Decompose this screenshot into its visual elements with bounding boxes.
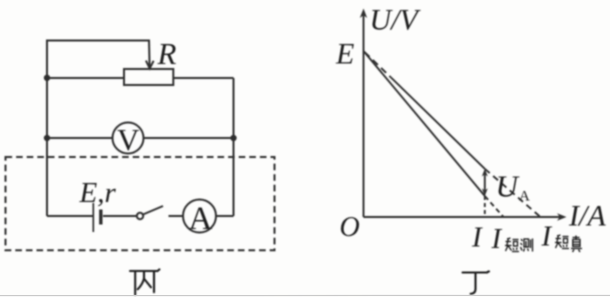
svg-text:E: E <box>335 38 354 71</box>
svg-text:U/V: U/V <box>370 4 422 37</box>
svg-text:A: A <box>519 189 530 205</box>
svg-text:R: R <box>157 36 177 71</box>
svg-text:I: I <box>491 223 503 255</box>
svg-text:I: I <box>471 222 483 254</box>
svg-text:A: A <box>189 201 213 237</box>
svg-text:O: O <box>340 212 360 243</box>
svg-text:V: V <box>117 122 140 157</box>
svg-text:I: I <box>541 221 553 253</box>
svg-text:I/A: I/A <box>568 200 606 233</box>
svg-text:U: U <box>496 169 521 204</box>
svg-text:E,r: E,r <box>79 177 117 209</box>
